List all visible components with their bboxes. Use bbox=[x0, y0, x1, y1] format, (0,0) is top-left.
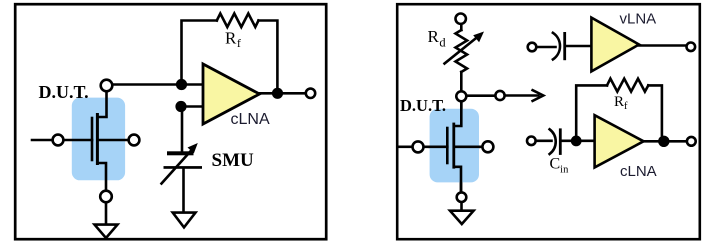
svg-text:cLNA: cLNA bbox=[231, 111, 270, 128]
svg-text:SMU: SMU bbox=[212, 150, 255, 171]
svg-text:vLNA: vLNA bbox=[620, 10, 657, 27]
svg-text:D.U.T.: D.U.T. bbox=[400, 96, 446, 115]
svg-text:cLNA: cLNA bbox=[620, 163, 657, 180]
svg-text:D.U.T.: D.U.T. bbox=[39, 82, 89, 102]
